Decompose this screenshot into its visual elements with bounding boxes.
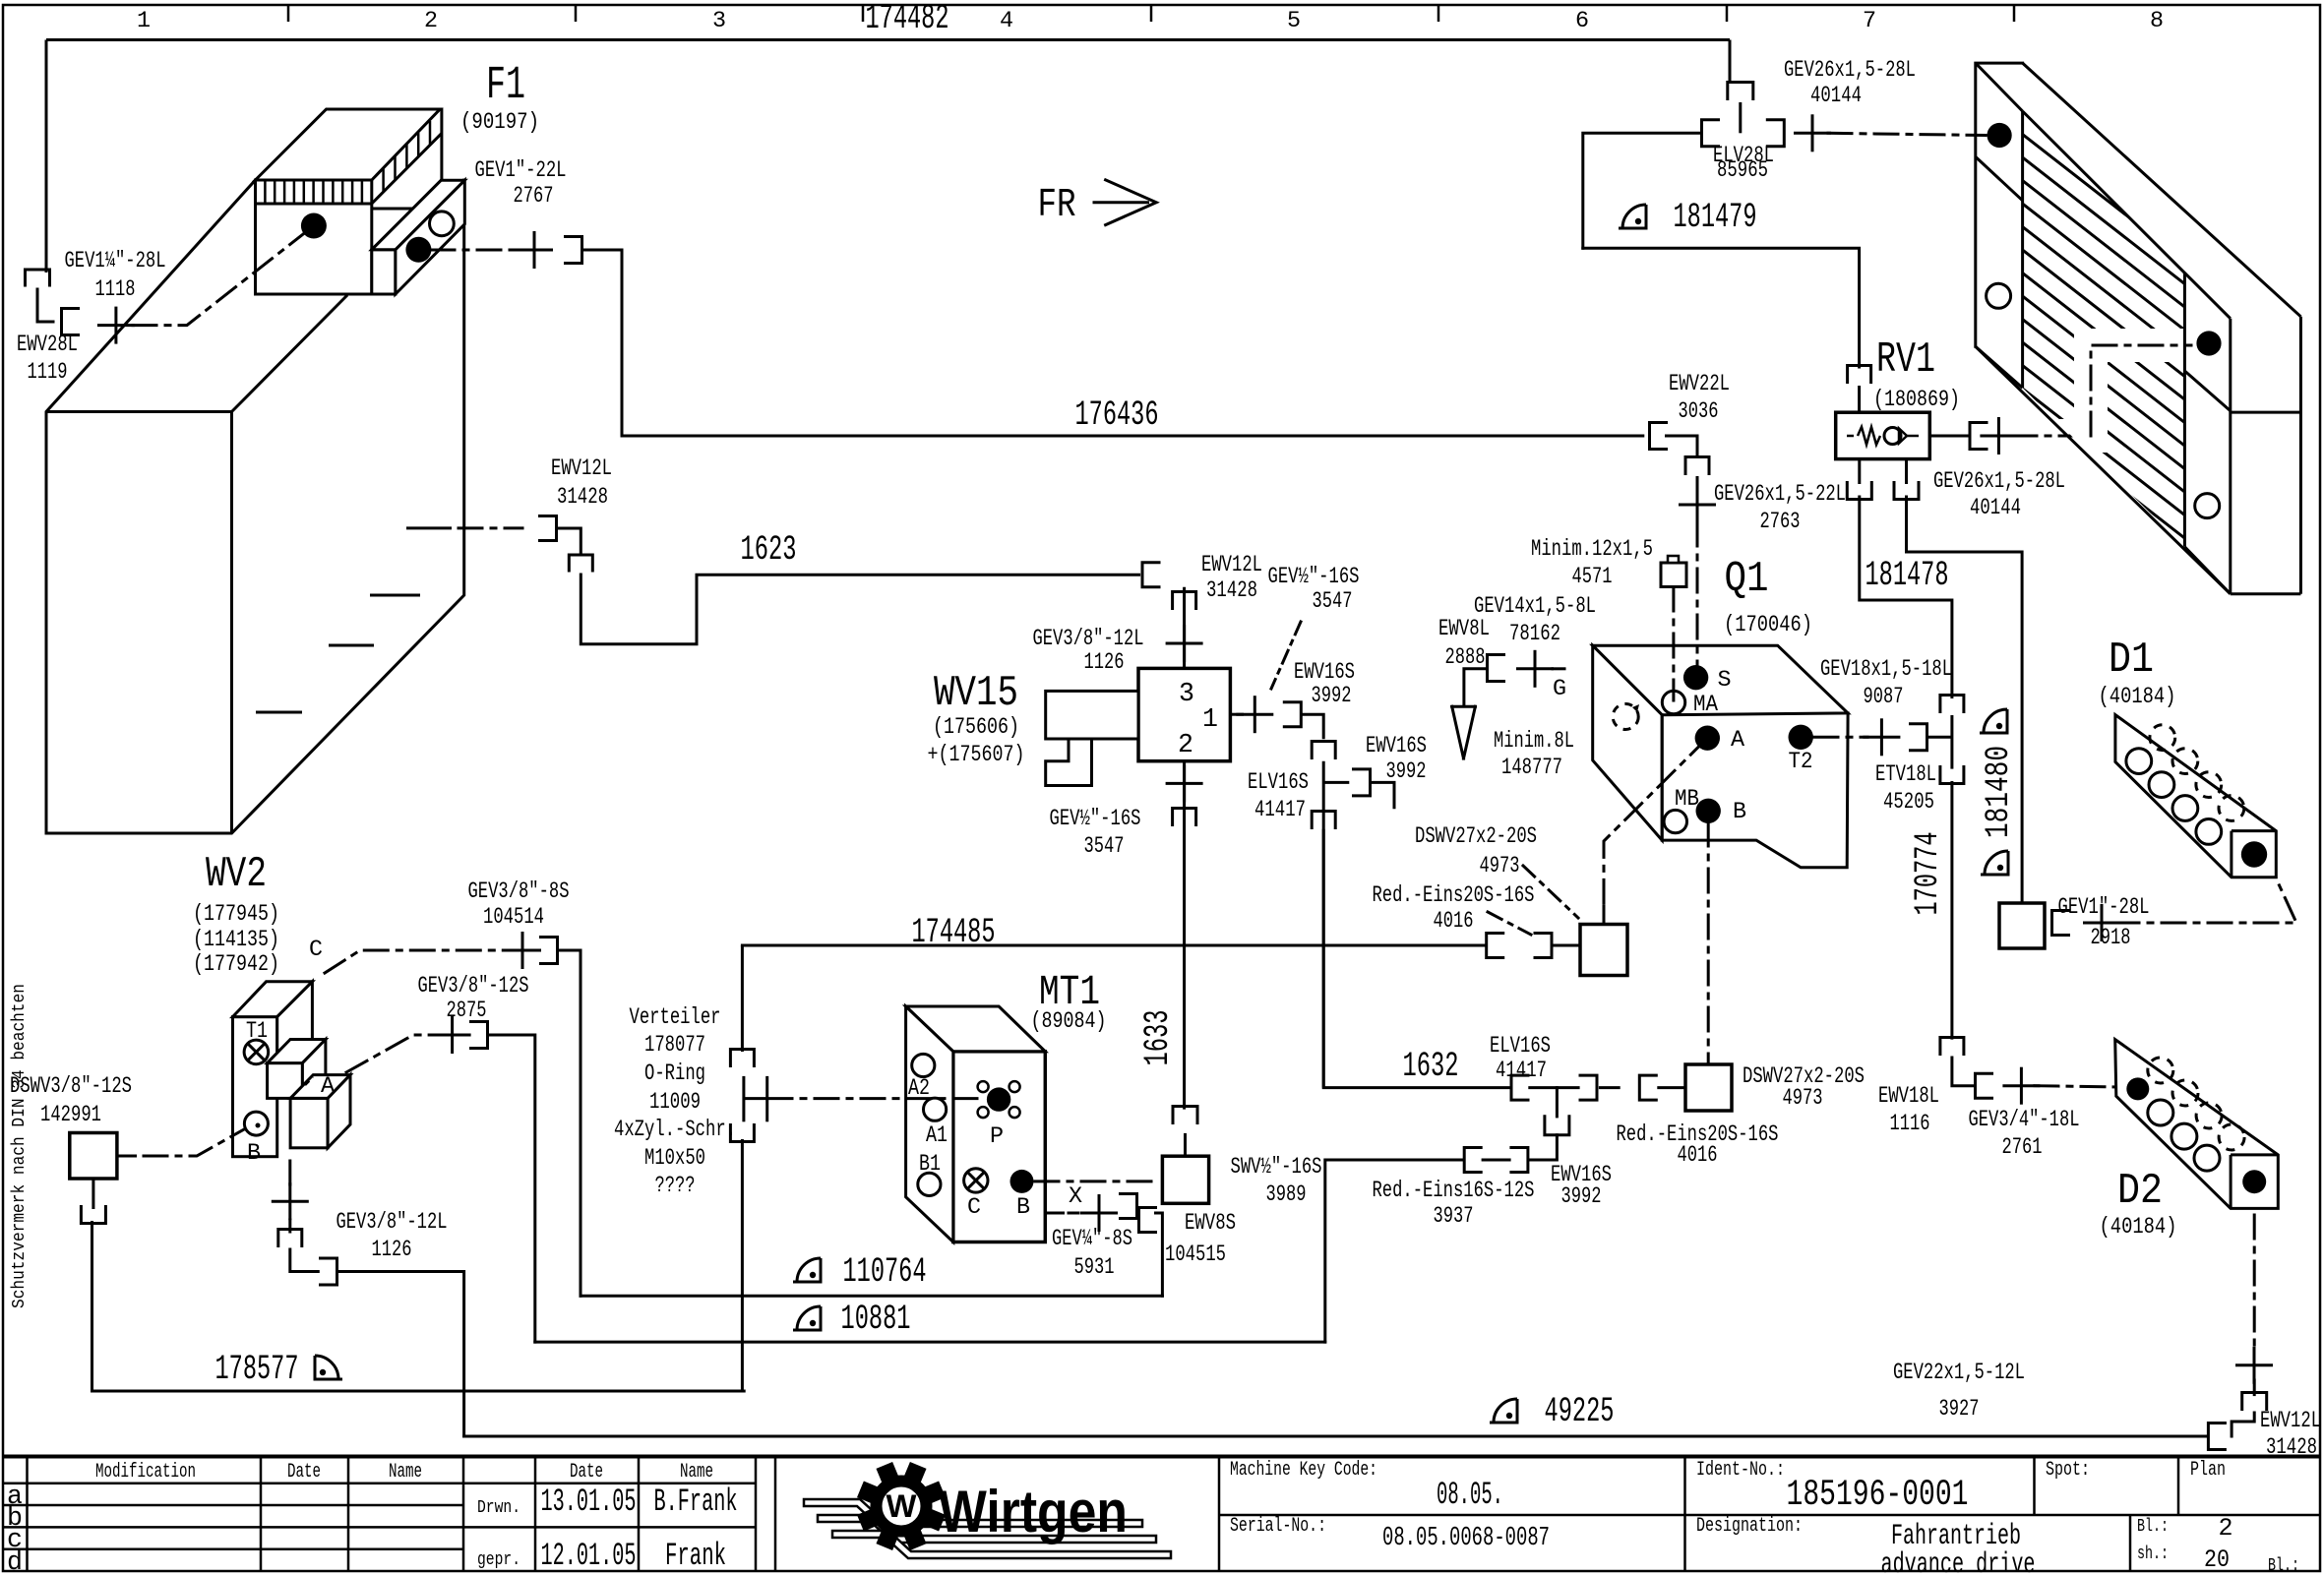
svg-text:104514: 104514 [483, 905, 544, 931]
hose dash-dot to Q1 S [1696, 522, 1699, 675]
svg-text:EWV28L: EWV28L [17, 333, 78, 358]
svg-text:A: A [321, 1074, 336, 1100]
svg-text:148777: 148777 [1501, 756, 1562, 781]
label 1632 [1403, 1047, 1459, 1086]
wire WV15 port1 [1230, 713, 1244, 716]
wire DSWV right [117, 1155, 137, 1158]
tank (reservoir) outline [46, 180, 464, 833]
label Minim.12x1,5 4571 [1531, 537, 1653, 590]
coupling RV1 right bracket [1970, 423, 1987, 450]
svg-text:Bl.:: Bl.: [2268, 1554, 2299, 1575]
svg-text:174482: 174482 [866, 0, 949, 38]
label 181480 [1980, 746, 2018, 838]
fitting GEV3/8-12L plus (WV15 top) [1166, 625, 1203, 662]
svg-text:85965: 85965 [1717, 158, 1768, 184]
label EWV18L 1116 [1878, 1084, 1939, 1137]
svg-text:GEV½"-16S: GEV½"-16S [1268, 565, 1360, 590]
coupling 2763 bracket [1685, 457, 1709, 474]
label EWV16S 3992 (branch) [1366, 734, 1427, 785]
wire Verteiler vertical lower [741, 1139, 744, 1391]
coupling EWV28L upper bracket [26, 270, 50, 285]
svg-text:181478: 181478 [1865, 556, 1949, 595]
svg-text:GEV3/8"-12S: GEV3/8"-12S [418, 974, 529, 1000]
svg-text:M10x50: M10x50 [644, 1146, 705, 1172]
wire T2 to 170774 line [1927, 737, 1952, 743]
svg-text:C: C [967, 1195, 981, 1221]
svg-text:4016: 4016 [1678, 1143, 1718, 1169]
coupling 170774 mid bracket [1940, 767, 1964, 784]
coupling EWV12L bracket upper [540, 516, 557, 541]
label X [1069, 1184, 1082, 1210]
fitting GEV1-22L plus [516, 231, 553, 269]
svg-text:WV15: WV15 [934, 670, 1018, 718]
label Q1 [1724, 556, 1812, 638]
svg-text:08.05.: 08.05. [1437, 1477, 1503, 1513]
wire 181480 run [1907, 497, 2023, 903]
coupling lower bracket on ELV16S line [1312, 812, 1335, 828]
wire WV2 B to 49225 [337, 1272, 464, 1437]
label 10881 [841, 1300, 911, 1339]
wire ELV28L tee stub [1739, 102, 1742, 133]
svg-text:(89084): (89084) [1031, 1009, 1107, 1035]
hose dash-dot to F1 port [133, 226, 314, 326]
wire 2875 down to 10881 [488, 1035, 535, 1342]
wire tank suction top-left [45, 40, 48, 273]
wire RV1 top stub [1858, 386, 1861, 412]
vertical note Schutzvermerk nach DIN 34 beachten [10, 984, 30, 1308]
hose dash-dot Q1 T2 right [1814, 736, 1867, 739]
svg-text:Date: Date [570, 1461, 603, 1484]
svg-text:178577: 178577 [215, 1350, 299, 1389]
wire 181479 run [1583, 248, 1860, 367]
svg-text:Verteiler: Verteiler [630, 1005, 721, 1031]
fitting GEV18x1,5-18L plus [1863, 718, 1900, 756]
wire 10881 run [535, 1341, 1325, 1344]
coupling ELV16S bracket left (1632) [1511, 1075, 1528, 1100]
svg-text:4xZyl.-Schr.: 4xZyl.-Schr. [614, 1118, 736, 1143]
fitting GEV1/4-8S plus (X) [1080, 1194, 1118, 1232]
svg-text:GEV26x1,5-28L: GEV26x1,5-28L [1784, 58, 1916, 84]
wire Verteiler vertical upper [741, 945, 744, 1052]
eye symbol 110764 [793, 1258, 821, 1282]
svg-text:2761: 2761 [2002, 1135, 2043, 1161]
fitting GEV22x1,5-12L plus [2235, 1347, 2273, 1384]
hose dash-dot WV2 B down [288, 1161, 291, 1185]
svg-text:Date: Date [287, 1461, 321, 1484]
wire RV1 bottom-right [1905, 459, 1908, 484]
coupling Verteiler upper bracket [730, 1050, 754, 1066]
svg-text:3992: 3992 [1561, 1184, 1602, 1210]
svg-text:13.01.05: 13.01.05 [541, 1484, 637, 1520]
label leader 4973 [1523, 866, 1578, 918]
wire MT1 X stub [1045, 1212, 1065, 1215]
label 176436 [1075, 395, 1159, 435]
wire EWV12L elbow (bottom right) [2232, 1413, 2254, 1436]
wire EWV16S chain [1528, 1135, 1557, 1160]
label GEV1/2-16S 3547 (below WV15) [1050, 807, 1141, 860]
hose dash-dot to radiator left port [1828, 133, 1986, 135]
coupling EWV16S branch bracket [1354, 769, 1371, 796]
coupling WV15 port2 bracket [1173, 809, 1196, 825]
svg-text:EWV16S: EWV16S [1294, 660, 1355, 686]
coupling stub bracket [1545, 1117, 1569, 1135]
svg-text:3927: 3927 [1939, 1397, 1980, 1423]
svg-text:C: C [309, 938, 323, 963]
fitting GEV26x1,5-22L plus [1679, 486, 1716, 523]
FR direction arrow [1093, 180, 1157, 225]
svg-text:B.Frank: B.Frank [654, 1484, 738, 1520]
svg-text:ELV16S: ELV16S [1248, 770, 1309, 796]
label D2 [2100, 1168, 2177, 1241]
fitting GEV14x1,5-8L plus [1516, 650, 1554, 688]
label GEV14x1,5-8L 78162 [1474, 594, 1596, 647]
label GEV18x1,5-18L 9087 [1820, 657, 1952, 710]
svg-text:ELV16S: ELV16S [1490, 1034, 1551, 1060]
label GEV3/8-8S 104514 [468, 879, 570, 931]
svg-text:GEV3/4"-18L: GEV3/4"-18L [1969, 1108, 2080, 1133]
wire from top border down [1729, 40, 1732, 85]
svg-text:Frank: Frank [665, 1538, 726, 1574]
svg-text:GEV3/8"-8S: GEV3/8"-8S [468, 879, 570, 905]
svg-text:Q1: Q1 [1725, 556, 1769, 604]
radiator left ports [1987, 123, 2012, 308]
svg-text:41417: 41417 [1254, 798, 1306, 823]
label GEV3/8-12L 1126 (WV2) [336, 1210, 448, 1263]
svg-text:3992: 3992 [1386, 759, 1427, 785]
hose dash-dot RV1 to radiator [2013, 345, 2196, 436]
svg-text:4973: 4973 [1783, 1086, 1823, 1112]
label Red.-Eins16S-12S 3937 [1373, 1179, 1535, 1230]
svg-text:1: 1 [1202, 704, 1218, 734]
label D1 [2099, 636, 2176, 710]
hose dash-dot tank outlet [459, 526, 522, 529]
svg-text:A: A [1731, 728, 1745, 754]
svg-text:DSWV3/8"-12S: DSWV3/8"-12S [10, 1074, 132, 1100]
coupling 2875 bracket [471, 1022, 488, 1049]
svg-text:40144: 40144 [1810, 84, 1862, 109]
svg-text:Schutzvermerk nach DIN 34 beac: Schutzvermerk nach DIN 34 beachten [10, 984, 30, 1308]
label WV15 [928, 670, 1025, 768]
coupling Red.-Eins20S-16S left bracket [1487, 934, 1503, 958]
coupling ELV28L left bracket [1702, 120, 1719, 147]
svg-text:(40184): (40184) [2099, 685, 2176, 710]
svg-text:MB: MB [1675, 787, 1699, 813]
label EWV12L 31428 (bottom right) [2260, 1409, 2321, 1461]
label ELV16S 41417 (upper) [1248, 770, 1309, 823]
wire WV15 port2 to 1633 [1183, 761, 1186, 1110]
wire between EWV16S couplings [1482, 1159, 1511, 1162]
svg-text:2763: 2763 [1760, 510, 1801, 535]
fitting GEV1/2-16S plus (WV15 bottom) [1166, 764, 1203, 802]
svg-text:1119: 1119 [28, 360, 68, 386]
label GEV3/8-12S 2875 [418, 974, 529, 1024]
svg-text:EWV12L: EWV12L [1201, 553, 1262, 578]
reducer insert square DSWV27x2-20S (lower) [1685, 1064, 1732, 1111]
wire 3927 down [2253, 1380, 2256, 1395]
wire between couplings 1632 [1528, 1086, 1579, 1089]
svg-text:EWV8S: EWV8S [1185, 1211, 1236, 1237]
svg-text:3547: 3547 [1084, 834, 1125, 860]
radiator hatching [2023, 111, 2254, 777]
svg-text:5: 5 [1287, 9, 1301, 34]
svg-text:142991: 142991 [40, 1103, 101, 1128]
wire 1632 run [1323, 830, 1510, 1087]
svg-text:B1: B1 [919, 1152, 941, 1178]
svg-text:Red.-Eins16S-12S: Red.-Eins16S-12S [1373, 1179, 1535, 1204]
coupling EWV8L bracket [1488, 655, 1504, 682]
wire EWV16S branch end [1371, 782, 1395, 807]
label SWV1/2-16S 3989 [1231, 1155, 1322, 1208]
distributor block D2 [2115, 1040, 2279, 1209]
pump Q1 (3D block) [1593, 645, 1848, 868]
label DSWV3/8-12S 142991 [10, 1074, 132, 1128]
label EWV28L 1119 [17, 333, 78, 386]
svg-text:3937: 3937 [1434, 1204, 1474, 1230]
label RV1 [1873, 336, 1960, 413]
coupling X upper bracket [1121, 1194, 1137, 1219]
check valve RV1 [1836, 412, 1930, 458]
label T1 [246, 1019, 268, 1045]
svg-text:8: 8 [2150, 9, 2164, 34]
svg-text:185196-0001: 185196-0001 [1787, 1475, 1969, 1516]
svg-text:(180869): (180869) [1873, 388, 1960, 413]
title block identification text [1230, 1459, 2299, 1575]
svg-text:9087: 9087 [1864, 685, 1904, 710]
svg-text:3: 3 [1179, 679, 1194, 708]
coupling 1126 upper bracket [278, 1230, 302, 1246]
reducer insert square DSWV27x2-20S (upper) [1580, 925, 1627, 976]
label GEV1/2-16S 3547 leader [1271, 622, 1301, 689]
label EWV16S 3992 (lower chain) [1551, 1163, 1612, 1210]
wire 110764 run [581, 1295, 1162, 1298]
svg-text:40144: 40144 [1970, 496, 2021, 521]
fitting GEV3/8-8S plus [504, 932, 541, 969]
title block grid lines [3, 1457, 2320, 1572]
coupling EWV28L lower bracket [62, 309, 79, 335]
coupling 1126 lower bracket [321, 1258, 337, 1285]
label WV2 [193, 851, 279, 978]
svg-text:Bl.:: Bl.: [2137, 1515, 2169, 1537]
coupling ELV16S bracket right (1632) [1580, 1075, 1597, 1100]
wire 170774 run [1950, 781, 1953, 1040]
wire X down to 110764 [1147, 1213, 1162, 1296]
svg-text:110764: 110764 [843, 1252, 927, 1292]
manifold Verteiler symbol [744, 1076, 767, 1121]
title block revision table text [7, 1461, 737, 1575]
label MT1 [1031, 969, 1107, 1035]
zone boundary tick marks (top edge) [288, 5, 2014, 22]
label EWV12L 31428 (WV15 top) [1201, 553, 1262, 604]
label C (WV2) [309, 938, 323, 963]
svg-text:181480: 181480 [1980, 746, 2018, 838]
label 49225 [1545, 1392, 1615, 1431]
svg-text:176436: 176436 [1075, 395, 1159, 435]
hose dash-dot to D2 [2035, 1086, 2123, 1087]
svg-text:GEV26x1,5-22L: GEV26x1,5-22L [1714, 482, 1846, 508]
wire EWV16S to 10881 [1325, 1160, 1464, 1342]
svg-text:Minim.8L: Minim.8L [1494, 729, 1574, 755]
label 174482 [866, 0, 949, 38]
svg-text:(90197): (90197) [460, 110, 539, 136]
svg-text:(40184): (40184) [2100, 1215, 2177, 1241]
coupling ELV28L right bracket [1767, 120, 1784, 147]
wire EWV8L elbow [1464, 669, 1488, 704]
wire ELV16S vertical [1322, 761, 1325, 1088]
fitting GEV1 1/4-28L plus [97, 307, 135, 344]
svg-text:Ident-No.:: Ident-No.: [1696, 1459, 1785, 1482]
svg-text:4973: 4973 [1480, 854, 1520, 879]
wire 178577 run [92, 1390, 745, 1393]
fitting GEV26x1,5-28L plus (top) [1794, 114, 1831, 151]
svg-text:181479: 181479 [1674, 198, 1757, 237]
label GEV22x1,5-12L 3927 [1893, 1361, 2025, 1423]
eye symbol 49225 [1490, 1399, 1517, 1423]
wire RV1 bottom-left [1858, 459, 1861, 484]
label DSWV27x2-20S 4973 (lower) [1743, 1064, 1865, 1112]
svg-text:GEV3/8"-12L: GEV3/8"-12L [336, 1210, 448, 1236]
label GEV1-22L 2767 [475, 158, 567, 210]
radiator cooler outline [1976, 63, 2301, 594]
svg-text:T2: T2 [1789, 750, 1813, 775]
eye symbol 181480 lower [1981, 851, 2008, 875]
hose dash-dot WV2 A to 2875 [346, 1035, 439, 1072]
svg-text:31428: 31428 [1206, 578, 1257, 604]
wire EWV22L elbow [1667, 436, 1698, 454]
wire top run 174482 [46, 38, 1730, 41]
wire to red-eins coupling [1599, 1086, 1621, 1089]
coupling Red.-Eins20S-16S right bracket [1535, 934, 1552, 958]
coupling EWV12L bracket lower [569, 555, 592, 571]
radiator white channel for hose [2013, 345, 2196, 436]
svg-text:P: P [990, 1124, 1004, 1150]
wire DSWV down [92, 1179, 94, 1209]
fitting block GEV1-28L 2918 [1999, 903, 2045, 948]
label GEV1 1/4-28L 1118 [65, 249, 166, 303]
svg-text:08.05.0068-0087: 08.05.0068-0087 [1382, 1523, 1550, 1552]
svg-text:B: B [1733, 800, 1746, 825]
svg-text:EWV18L: EWV18L [1878, 1084, 1939, 1110]
svg-text:4571: 4571 [1572, 565, 1613, 590]
svg-text:GEV22x1,5-12L: GEV22x1,5-12L [1893, 1361, 2025, 1386]
svg-text:(114135): (114135) [193, 928, 279, 953]
wire 1126 elbow [290, 1220, 319, 1272]
svg-text:2: 2 [2218, 1514, 2232, 1543]
hose dash-dot Minim to MA [1672, 587, 1675, 700]
svg-text:MA: MA [1693, 693, 1719, 718]
coupling WV15 port3 bracket [1173, 592, 1196, 609]
coupling 181478 bracket [1847, 483, 1871, 500]
label GEV1-28L 2918 [2058, 895, 2150, 951]
wire 49225 run [464, 1435, 2208, 1438]
svg-text:49225: 49225 [1545, 1392, 1615, 1431]
wire 174485 run [742, 944, 1486, 947]
pressure switch Minim.12x1,5 [1661, 556, 1686, 587]
motor/valve block MT1 [906, 1006, 1046, 1242]
wire RV1 right [1929, 435, 1970, 438]
label 181478 [1865, 556, 1949, 595]
svg-text:2875: 2875 [447, 999, 487, 1024]
check valve square DSWV3/8-12S [70, 1133, 117, 1180]
distributor block D1 [2115, 715, 2276, 878]
filter F1 (3D block on tank) [256, 109, 465, 294]
svg-text:????: ???? [655, 1174, 696, 1199]
wire square1 stub [1603, 905, 1606, 925]
svg-text:Name: Name [389, 1461, 422, 1484]
svg-text:EWV22L: EWV22L [1669, 372, 1730, 397]
fitting plus WV15 port1 [1236, 696, 1273, 733]
label G [1553, 677, 1566, 702]
coupling EWV16S left bracket [1464, 1148, 1481, 1173]
coupling X lower bracket [1139, 1208, 1156, 1233]
coupling 49225 end bracket [2208, 1424, 2225, 1450]
valve SWV1/2-16S block [1162, 1156, 1208, 1203]
label GEV26x1,5-28L 40144 (top) [1784, 58, 1916, 109]
coupling 1633 bracket [1173, 1107, 1197, 1123]
eye symbol 178577 [315, 1356, 342, 1379]
coupling EWV18L bracket [1940, 1038, 1964, 1055]
svg-text:1633: 1633 [1138, 1010, 1178, 1066]
svg-text:EWV8L: EWV8L [1438, 617, 1490, 642]
eye symbol 181479 [1619, 205, 1646, 228]
label B (WV2) [247, 1141, 261, 1167]
svg-text:41417: 41417 [1496, 1059, 1547, 1084]
svg-text:(170046): (170046) [1724, 613, 1812, 638]
label 174485 [912, 913, 996, 952]
svg-text:5931: 5931 [1074, 1255, 1115, 1281]
svg-text:20: 20 [2204, 1545, 2230, 1574]
wire EWV18L elbow [1952, 1058, 1975, 1086]
svg-text:A1: A1 [926, 1123, 948, 1149]
svg-text:GEV1"-22L: GEV1"-22L [475, 158, 567, 184]
svg-text:GEV1"-28L: GEV1"-28L [2058, 895, 2150, 921]
hose dash-dot to G [1553, 667, 1570, 670]
svg-text:Serial-No.:: Serial-No.: [1230, 1515, 1326, 1538]
coupling Verteiler lower bracket [730, 1125, 754, 1142]
svg-text:3036: 3036 [1679, 399, 1719, 425]
wire to DSWV square upper [1552, 944, 1580, 947]
label 110764 [843, 1252, 927, 1292]
wire DSWV to 178577 [91, 1221, 93, 1391]
wire 1633 to SWV [1184, 1133, 1187, 1156]
svg-text:DSWV27x2-20S: DSWV27x2-20S [1415, 824, 1537, 850]
svg-text:12.01.05: 12.01.05 [541, 1538, 637, 1574]
fitting GEV3/8-12L plus (WV2 B) [272, 1182, 309, 1220]
coupling 2918 bracket [2052, 911, 2069, 936]
svg-text:Minim.12x1,5: Minim.12x1,5 [1531, 537, 1653, 563]
Wirtgen logo [804, 1462, 1171, 1558]
svg-text:sh.:: sh.: [2137, 1543, 2169, 1564]
coupling EWV16S right bracket [1511, 1148, 1528, 1173]
svg-text:31428: 31428 [557, 485, 608, 511]
svg-text:GEV½"-16S: GEV½"-16S [1050, 807, 1141, 832]
svg-text:11009: 11009 [649, 1090, 701, 1116]
svg-text:S: S [1717, 668, 1731, 694]
label EWV12L 31428 (tank outlet) [551, 456, 612, 511]
label leader 4016 [1488, 912, 1531, 935]
wire 181479 left [1583, 133, 1702, 248]
label GEV3/4-18L 2761 [1969, 1108, 2080, 1161]
radiator hose dash-dot inside [2091, 345, 2196, 436]
svg-text:4: 4 [1000, 9, 1013, 34]
svg-text:FR: FR [1038, 183, 1076, 228]
label 1623 [741, 530, 797, 570]
eye symbol 10881 [793, 1306, 821, 1330]
coupling 2761 bracket [1976, 1073, 1992, 1098]
svg-text:6: 6 [1575, 9, 1589, 34]
svg-text:gepr.: gepr. [477, 1548, 520, 1570]
coupling 1623-WV15 bracket [1142, 563, 1159, 587]
svg-text:F1: F1 [486, 60, 525, 112]
